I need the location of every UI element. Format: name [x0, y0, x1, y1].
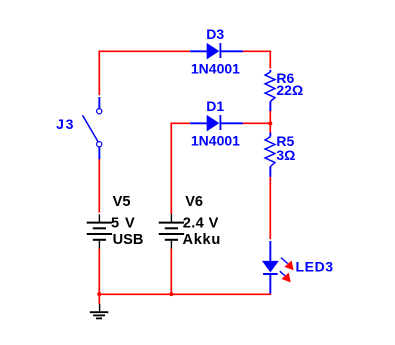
svg-text:USB: USB — [113, 232, 144, 248]
svg-text:LED3: LED3 — [296, 259, 334, 275]
diode D3 — [190, 43, 243, 60]
value 3ohm — [276, 147, 295, 163]
ground — [90, 304, 109, 319]
LED3 emission arrow 1 — [281, 258, 294, 271]
svg-text:D3: D3 — [206, 26, 224, 42]
wire right vertical between R5 and LED — [269, 177, 271, 239]
svg-text:Akku: Akku — [183, 232, 222, 248]
wire left vertical upper — [98, 50, 100, 95]
resistor R5 — [265, 133, 275, 177]
svg-text:5 V: 5 V — [111, 216, 136, 232]
wire middle vertical upper — [170, 122, 172, 214]
wire left vertical middle — [98, 159, 100, 213]
value 2.4 V — [183, 216, 219, 232]
value 1N4001 of D1 — [191, 133, 240, 149]
wire top horizontal — [98, 50, 190, 52]
diode D1 — [190, 115, 243, 131]
svg-text:1N4001: 1N4001 — [191, 61, 240, 77]
junction ground node — [97, 292, 101, 296]
wire right vertical top — [269, 50, 271, 68]
battery V6 — [159, 214, 184, 249]
svg-text:V6: V6 — [185, 194, 203, 210]
label R5 — [276, 133, 294, 149]
svg-text:1N4001: 1N4001 — [191, 133, 240, 149]
value USB — [113, 232, 144, 248]
value 1N4001 of D3 — [191, 61, 240, 77]
wire ground stem red — [98, 294, 100, 304]
svg-text:3Ω: 3Ω — [276, 147, 295, 163]
value 22ohm — [276, 82, 303, 98]
wire D1 right horizontal — [243, 122, 271, 124]
label J3 — [56, 116, 75, 132]
label LED3 — [296, 259, 334, 275]
svg-text:D1: D1 — [206, 98, 224, 114]
battery V5 — [87, 214, 112, 249]
switch J3 — [83, 97, 102, 159]
value Akku — [183, 232, 222, 248]
label D3 — [206, 26, 224, 42]
svg-text:J3: J3 — [56, 116, 75, 132]
resistor R6 — [265, 70, 275, 111]
wire right vertical between R6 and R5 — [269, 110, 271, 133]
label D1 — [206, 98, 224, 114]
junction V6 bottom node — [169, 292, 173, 296]
junction R6-R5 node — [268, 121, 272, 125]
LED LED3 — [262, 241, 279, 294]
wire bottom horizontal — [98, 293, 271, 295]
value 5 V — [111, 216, 136, 232]
wire top right horizontal — [243, 50, 271, 52]
wire middle vertical lower — [170, 249, 172, 296]
wire D1 left horizontal — [170, 122, 190, 124]
svg-text:V5: V5 — [113, 194, 131, 210]
LED3 emission arrow 2 — [280, 271, 291, 282]
label V5 — [113, 194, 131, 210]
svg-text:2.4 V: 2.4 V — [183, 216, 219, 232]
label V6 — [185, 194, 203, 210]
label R6 — [276, 70, 294, 86]
wire left vertical lower — [98, 249, 100, 296]
svg-text:22Ω: 22Ω — [276, 82, 303, 98]
